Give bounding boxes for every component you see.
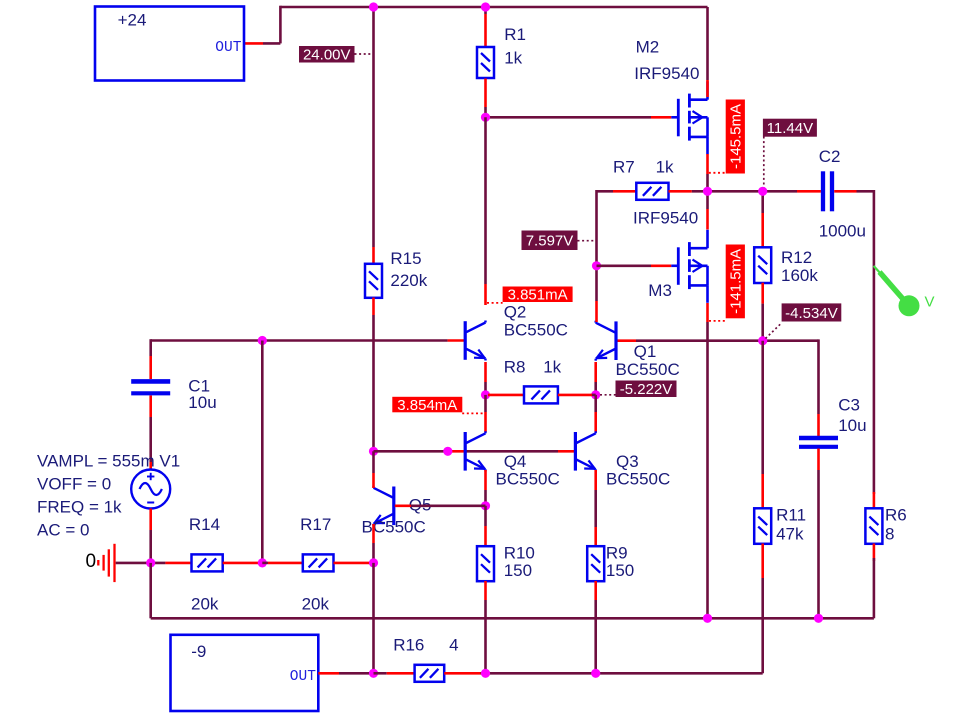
junction node ground rail C3 xyxy=(814,614,823,623)
pin Q1 emitter xyxy=(594,362,597,382)
resistor R16 4ohm xyxy=(415,665,445,682)
wire R10 column xyxy=(484,506,487,526)
pin +24 OUT stub xyxy=(244,42,263,45)
pin Q1 base xyxy=(617,339,636,342)
pin M2 gate xyxy=(651,116,671,119)
wire Q4 emitter to node xyxy=(484,490,487,506)
wire R17 to Q5 node xyxy=(371,562,374,565)
svg-text:C3: C3 xyxy=(838,395,860,414)
wire M3 drain column xyxy=(706,191,709,209)
pin -9 OUT stub xyxy=(318,672,339,675)
svg-text:BC550C: BC550C xyxy=(616,360,680,379)
svg-text:Q1: Q1 xyxy=(634,342,657,361)
wire divider column xyxy=(261,341,264,563)
wire ground to row xyxy=(116,562,166,565)
wire Q3 emitter column xyxy=(594,490,597,527)
svg-text:150: 150 xyxy=(504,561,532,580)
pin R17 right xyxy=(334,562,371,565)
pin M3 source xyxy=(706,303,709,322)
leader dotted 3.854mA xyxy=(462,412,484,414)
pin M3 gate xyxy=(651,264,671,267)
junction node R8 left xyxy=(481,390,490,399)
pin Q2 collector xyxy=(484,284,487,305)
pin R1 bottom xyxy=(484,79,487,108)
junction node -9 rail left xyxy=(369,669,378,678)
transistor M3 IRF9540 PMOS xyxy=(677,247,680,284)
svg-text:FREQ = 1k: FREQ = 1k xyxy=(37,497,122,516)
wire R11 column top xyxy=(761,341,764,474)
wire R6 to ground rail xyxy=(873,558,876,618)
wire R15 to mirror row xyxy=(372,315,375,451)
svg-text:R12: R12 xyxy=(781,248,812,267)
resistor R1 xyxy=(477,47,494,78)
pin Q3 emitter xyxy=(594,470,597,490)
wire R9 to R16 row xyxy=(594,600,597,673)
svg-text:R7: R7 xyxy=(613,158,635,177)
junction node output xyxy=(703,187,712,196)
svg-text:3.854mA: 3.854mA xyxy=(397,397,457,414)
VDC source +24 box xyxy=(95,7,244,81)
svg-text:160k: 160k xyxy=(781,266,818,285)
capacitor C3 10u xyxy=(799,436,838,441)
junction node R8 right xyxy=(591,390,600,399)
pin R7 left xyxy=(613,190,637,193)
leader dotted 7.597V xyxy=(578,240,596,242)
svg-text:R6: R6 xyxy=(885,506,907,525)
svg-text:R1: R1 xyxy=(504,25,526,44)
voltage label 24.00V xyxy=(299,46,355,63)
wire Q1 emitter to R8 node xyxy=(594,382,597,395)
capacitor C1 10u xyxy=(131,379,170,384)
pin R12 top xyxy=(761,213,764,248)
svg-text:20k: 20k xyxy=(191,594,219,613)
wire M2 drain column xyxy=(706,7,709,80)
resistor R9 150 xyxy=(587,546,604,581)
pin R1 top xyxy=(484,14,487,47)
pin R14 right xyxy=(223,562,259,565)
svg-text:1k: 1k xyxy=(504,49,522,68)
wire input row xyxy=(151,339,448,342)
junction node R12 top xyxy=(758,187,767,196)
svg-text:VAMPL = 555m V1: VAMPL = 555m V1 xyxy=(37,451,180,470)
current label 3.851mA xyxy=(503,287,573,303)
pin R10 top xyxy=(484,526,487,547)
svg-text:8: 8 xyxy=(885,525,894,544)
wire R1 column top xyxy=(484,7,487,14)
wire Q3 collector column xyxy=(594,395,597,412)
pin C3 top xyxy=(817,414,820,436)
svg-text:11.44V: 11.44V xyxy=(767,120,813,137)
pin R11 top xyxy=(761,474,764,509)
wire Q4 collector column xyxy=(484,395,487,412)
svg-text:R14: R14 xyxy=(189,515,220,534)
voltage label -5.222V xyxy=(616,381,677,398)
junction node ground V1 xyxy=(146,558,155,567)
svg-text:-5.222V: -5.222V xyxy=(620,381,673,398)
svg-text:-4.534V: -4.534V xyxy=(785,305,838,322)
pin M2 drain xyxy=(706,80,709,97)
wire -9 to node xyxy=(339,672,374,675)
pin R16 left xyxy=(387,672,415,675)
resistor R14 20k xyxy=(192,554,223,571)
voltage label -4.534V xyxy=(782,303,842,321)
svg-text:-141.5mA: -141.5mA xyxy=(728,249,745,314)
leader dotted -5.222V xyxy=(600,394,616,396)
svg-text:BC550C: BC550C xyxy=(362,518,426,537)
svg-text:24.00V: 24.00V xyxy=(303,47,351,64)
pin Q4 base xyxy=(448,450,464,453)
wire Q5 emitter to ground row xyxy=(372,543,375,563)
pin M3 drain xyxy=(706,209,709,230)
leader dotted -145.5mA xyxy=(709,172,726,174)
wire R16 row xyxy=(481,672,763,675)
wire M3 gate row xyxy=(597,264,652,267)
svg-text:R17: R17 xyxy=(300,515,331,534)
svg-text:-145.5mA: -145.5mA xyxy=(728,104,745,169)
pin Q4 collector xyxy=(484,412,487,432)
resistor R17 20k xyxy=(303,554,334,571)
resistor R6 8ohm xyxy=(865,508,882,544)
svg-text:VOFF = 0: VOFF = 0 xyxy=(37,474,111,493)
junction node R16 row R10 xyxy=(481,669,490,678)
junction node input divider xyxy=(258,336,267,345)
pin Q4 emitter xyxy=(484,470,487,490)
transistor Q4 BC550C NPN xyxy=(464,432,467,471)
svg-text:Q3: Q3 xyxy=(616,452,639,471)
svg-text:IRF9540: IRF9540 xyxy=(633,209,698,228)
junction node ground rail M3 xyxy=(703,614,712,623)
wire R10 to R16 row xyxy=(484,600,487,673)
svg-text:1k: 1k xyxy=(656,158,674,177)
wire Q4 to Q3 base xyxy=(467,450,559,453)
svg-text:BC550C: BC550C xyxy=(496,470,560,489)
pin R17 left xyxy=(268,562,303,565)
wire Q1 base row xyxy=(636,339,819,342)
svg-text:R16: R16 xyxy=(393,635,424,654)
svg-text:R10: R10 xyxy=(504,543,535,562)
svg-text:AC = 0: AC = 0 xyxy=(37,520,89,539)
svg-text:M2: M2 xyxy=(636,37,660,56)
wire ground rail left drop xyxy=(149,563,152,618)
pin R11 bottom xyxy=(761,544,764,579)
junction node Q4 base xyxy=(443,447,452,456)
pin C1 bottom xyxy=(149,396,152,418)
svg-text:4: 4 xyxy=(449,635,458,654)
svg-text:Q4: Q4 xyxy=(504,452,527,471)
current label -141.5mA xyxy=(726,245,745,319)
wire C1 to V1 xyxy=(149,417,152,462)
svg-text:3.851mA: 3.851mA xyxy=(508,287,568,304)
junction node top rail R1 xyxy=(481,2,490,11)
svg-text:BC550C: BC550C xyxy=(606,470,670,489)
voltage label 7.597V xyxy=(522,231,578,251)
pin R15 bottom xyxy=(372,298,375,316)
wire right edge column xyxy=(873,190,876,494)
pin C3 bottom xyxy=(817,449,820,471)
wire node to R16 xyxy=(374,672,387,675)
wire column R15 top xyxy=(372,7,375,247)
leader dotted 11.44V xyxy=(763,137,765,190)
wire R14 to divider node xyxy=(259,562,263,565)
source V1 VSIN xyxy=(131,470,170,509)
svg-text:1k: 1k xyxy=(543,358,561,377)
wire M2 gate row xyxy=(486,116,652,119)
pin R7 right xyxy=(669,190,692,193)
pin R10 bottom xyxy=(484,581,487,600)
pin Q5 base xyxy=(395,504,411,507)
pin M2 source xyxy=(706,154,709,174)
svg-text:R9: R9 xyxy=(606,543,628,562)
junction node top rail R15 xyxy=(369,2,378,11)
wire R1 to gate node xyxy=(484,107,487,117)
junction node R16 row R9 xyxy=(591,669,600,678)
wire output node to C2 xyxy=(763,190,797,193)
pin R9 bottom xyxy=(594,581,597,600)
svg-text:1000u: 1000u xyxy=(819,222,866,241)
svg-text:10u: 10u xyxy=(838,416,866,435)
pin Q3 collector xyxy=(594,412,597,432)
svg-text:R15: R15 xyxy=(390,249,421,268)
svg-text:OUT: OUT xyxy=(215,40,241,56)
wire C3 to ground rail xyxy=(817,470,820,618)
svg-text:R11: R11 xyxy=(776,506,806,525)
wire M2 source to output node xyxy=(706,174,709,191)
resistor R11 47k xyxy=(754,508,771,544)
wire R12 to bias node xyxy=(761,304,764,341)
wire Q2 collector column xyxy=(484,117,487,284)
wire Q5 base to Q4 emitter xyxy=(411,504,486,507)
junction node bias xyxy=(758,336,767,345)
junction node M2 gate row xyxy=(481,113,490,122)
transistor Q2 BC550C NPN xyxy=(464,321,467,360)
pin R14 left xyxy=(165,562,191,565)
svg-text:20k: 20k xyxy=(302,594,330,613)
capacitor C2 1000u xyxy=(821,171,825,211)
wire x374 column to R16 row xyxy=(372,563,375,673)
svg-text:R8: R8 xyxy=(504,358,526,377)
wire V1 to ground row xyxy=(149,530,152,563)
junction node M3 gate xyxy=(592,261,601,270)
current label -145.5mA xyxy=(726,100,745,174)
svg-text:47k: 47k xyxy=(776,525,804,544)
pin R8 left xyxy=(488,394,524,397)
wire from +24 OUT xyxy=(263,42,280,45)
svg-text:OUT: OUT xyxy=(290,669,316,685)
pin V1 plus xyxy=(149,462,152,470)
pin R8 right xyxy=(558,394,592,397)
pin Q2 emitter xyxy=(484,362,487,382)
transistor Q1 BC550C NPN mirrored xyxy=(614,321,617,360)
junction node divider bottom xyxy=(258,558,267,567)
probe V marker xyxy=(874,266,882,275)
wire R11 to R16 row xyxy=(761,578,764,673)
pin C2 left xyxy=(797,190,821,193)
wire C1 column top corner xyxy=(149,339,152,356)
pin C2 right xyxy=(834,190,856,193)
wire Q5 collector column xyxy=(372,451,375,473)
resistor R7 xyxy=(636,183,668,200)
pin R6 bottom xyxy=(873,544,876,562)
wire mirror base row xyxy=(374,450,448,453)
wire R8 right to node xyxy=(592,394,596,397)
pin Q3 base xyxy=(558,450,575,453)
wire R12 column top xyxy=(761,191,764,213)
resistor R12 160k xyxy=(754,247,771,283)
transistor M2 IRF9540 PMOS xyxy=(677,99,680,137)
transistor Q5 BC550C NPN mirrored xyxy=(392,487,395,526)
current label 3.854mA xyxy=(392,397,462,413)
resistor R10 150 xyxy=(477,546,494,581)
voltage label 11.44V xyxy=(763,119,817,137)
pin R16 right xyxy=(444,672,480,675)
svg-text:220k: 220k xyxy=(390,271,427,290)
svg-text:0: 0 xyxy=(86,551,97,572)
wire C3 column top xyxy=(817,339,820,414)
resistor R8 1k xyxy=(524,386,558,403)
wire C2 to right column xyxy=(857,190,874,193)
junction node Q5 base xyxy=(481,501,490,510)
node VCC top rail wire xyxy=(280,6,707,9)
pin R9 top xyxy=(594,527,597,547)
pin Q1 collector xyxy=(595,301,598,322)
wire divider to R17 xyxy=(262,562,268,565)
leader dotted 24.00V xyxy=(355,53,373,55)
wire ground rail xyxy=(151,617,874,620)
VDC source -9 box xyxy=(171,635,319,711)
svg-text:M3: M3 xyxy=(648,281,672,300)
svg-text:10u: 10u xyxy=(188,393,216,412)
svg-text:C2: C2 xyxy=(819,147,841,166)
wire column M3 gate feed xyxy=(595,190,598,301)
wire R7 output row left xyxy=(597,190,614,193)
svg-text:-9: -9 xyxy=(191,642,206,661)
junction node mirror bases left xyxy=(369,447,378,456)
pin V1 minus xyxy=(149,509,152,531)
leader dotted 3.851mA xyxy=(487,302,503,304)
svg-text:+24: +24 xyxy=(118,11,147,30)
svg-text:BC550C: BC550C xyxy=(504,320,568,339)
svg-text:V: V xyxy=(925,293,935,310)
pin R15 top xyxy=(372,247,375,264)
wire M3 source to ground rail xyxy=(706,322,709,618)
pin C1 top xyxy=(149,356,152,379)
wire Q2 emitter to R8 node xyxy=(484,382,487,395)
pin Q5 emitter xyxy=(372,524,375,543)
svg-text:IRF9540: IRF9540 xyxy=(634,64,699,83)
svg-text:Q2: Q2 xyxy=(504,302,527,321)
pin Q5 collector xyxy=(372,473,375,488)
leader dotted -4.534V xyxy=(766,323,782,339)
leader dotted -141.5mA xyxy=(709,320,726,322)
pin R12 bottom xyxy=(761,283,764,304)
wire R7 to output node xyxy=(692,190,763,193)
svg-text:7.597V: 7.597V xyxy=(526,233,574,250)
transistor Q3 BC550C NPN xyxy=(574,432,577,471)
pin Q2 base xyxy=(448,339,464,342)
pin R6 top xyxy=(873,492,876,509)
svg-text:150: 150 xyxy=(606,561,634,580)
resistor R15 220k xyxy=(365,264,382,298)
junction node Q5 emitter row xyxy=(369,558,378,567)
wire +24 corner xyxy=(279,6,282,44)
